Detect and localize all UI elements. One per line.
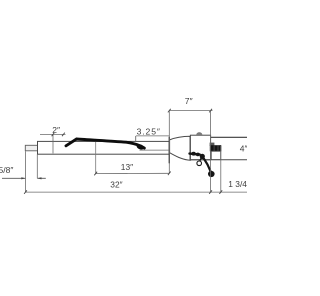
shift lever arm <box>204 158 211 172</box>
dim 2in extension tick <box>52 134 54 153</box>
dim 5/8 arrow right <box>37 177 41 179</box>
dim 2in tick left <box>52 133 55 137</box>
dim 5/8 arrow left <box>21 177 25 179</box>
svg-text:1 3/4″: 1 3/4″ <box>228 179 247 189</box>
shift rod on tube top <box>66 139 144 148</box>
link to loop <box>200 158 201 161</box>
svg-text:3.25″: 3.25″ <box>137 126 161 136</box>
dim 32in tick right <box>209 190 212 194</box>
dim 13in tick left <box>94 172 97 176</box>
dim 13in tick right <box>168 172 171 176</box>
dim 7in line <box>169 110 212 112</box>
lever mount bar <box>190 154 200 155</box>
dim 7in tick right <box>209 109 212 113</box>
right section bottom edge <box>191 159 248 161</box>
dim 13in line <box>96 172 170 174</box>
coupler box below collar <box>211 151 221 159</box>
dim 32in line <box>26 191 248 193</box>
svg-text:32″: 32″ <box>110 180 122 190</box>
dim 32in tick left <box>24 190 27 194</box>
dim 3.25in line <box>136 135 169 137</box>
svg-text:13″: 13″ <box>121 162 133 172</box>
ext stub left <box>25 151 27 192</box>
bell taper (cone) <box>170 136 191 160</box>
loop ring <box>197 161 202 166</box>
lever boss <box>200 154 205 159</box>
dim 2in line <box>40 133 66 135</box>
dim 2in tick right <box>62 133 65 137</box>
bump on housing top <box>196 132 202 135</box>
svg-text:2″: 2″ <box>52 125 60 135</box>
ext line left (plate) <box>168 111 170 173</box>
dim 1-3/4 tick <box>219 190 222 194</box>
lever knob <box>208 171 215 177</box>
ext line right (housing end) <box>210 111 212 193</box>
shaft stub (left input shaft end) <box>25 145 37 151</box>
svg-text:4″: 4″ <box>240 143 247 153</box>
mount plate at firewall <box>168 137 170 164</box>
svg-text:5/8″: 5/8″ <box>0 165 13 175</box>
ext tube left <box>36 154 38 178</box>
column outer tube <box>38 141 170 154</box>
dim 3.25in tick <box>135 136 137 141</box>
cone big-end face <box>189 136 191 160</box>
right section top edge <box>211 136 247 138</box>
svg-text:7″: 7″ <box>185 96 193 106</box>
rod end thin line to plate <box>140 149 170 151</box>
dim 13in ext left <box>95 142 97 174</box>
dim 7in tick left <box>168 109 171 113</box>
dim 1-3/4 ext right <box>220 146 222 192</box>
collar nub <box>210 143 215 146</box>
dark ribbed collar <box>210 145 222 151</box>
rod end blob <box>136 143 145 150</box>
dim 5/8 leader left <box>2 177 26 179</box>
upper housing cylinder <box>190 135 210 160</box>
dim 5/8 leader right <box>37 177 46 179</box>
